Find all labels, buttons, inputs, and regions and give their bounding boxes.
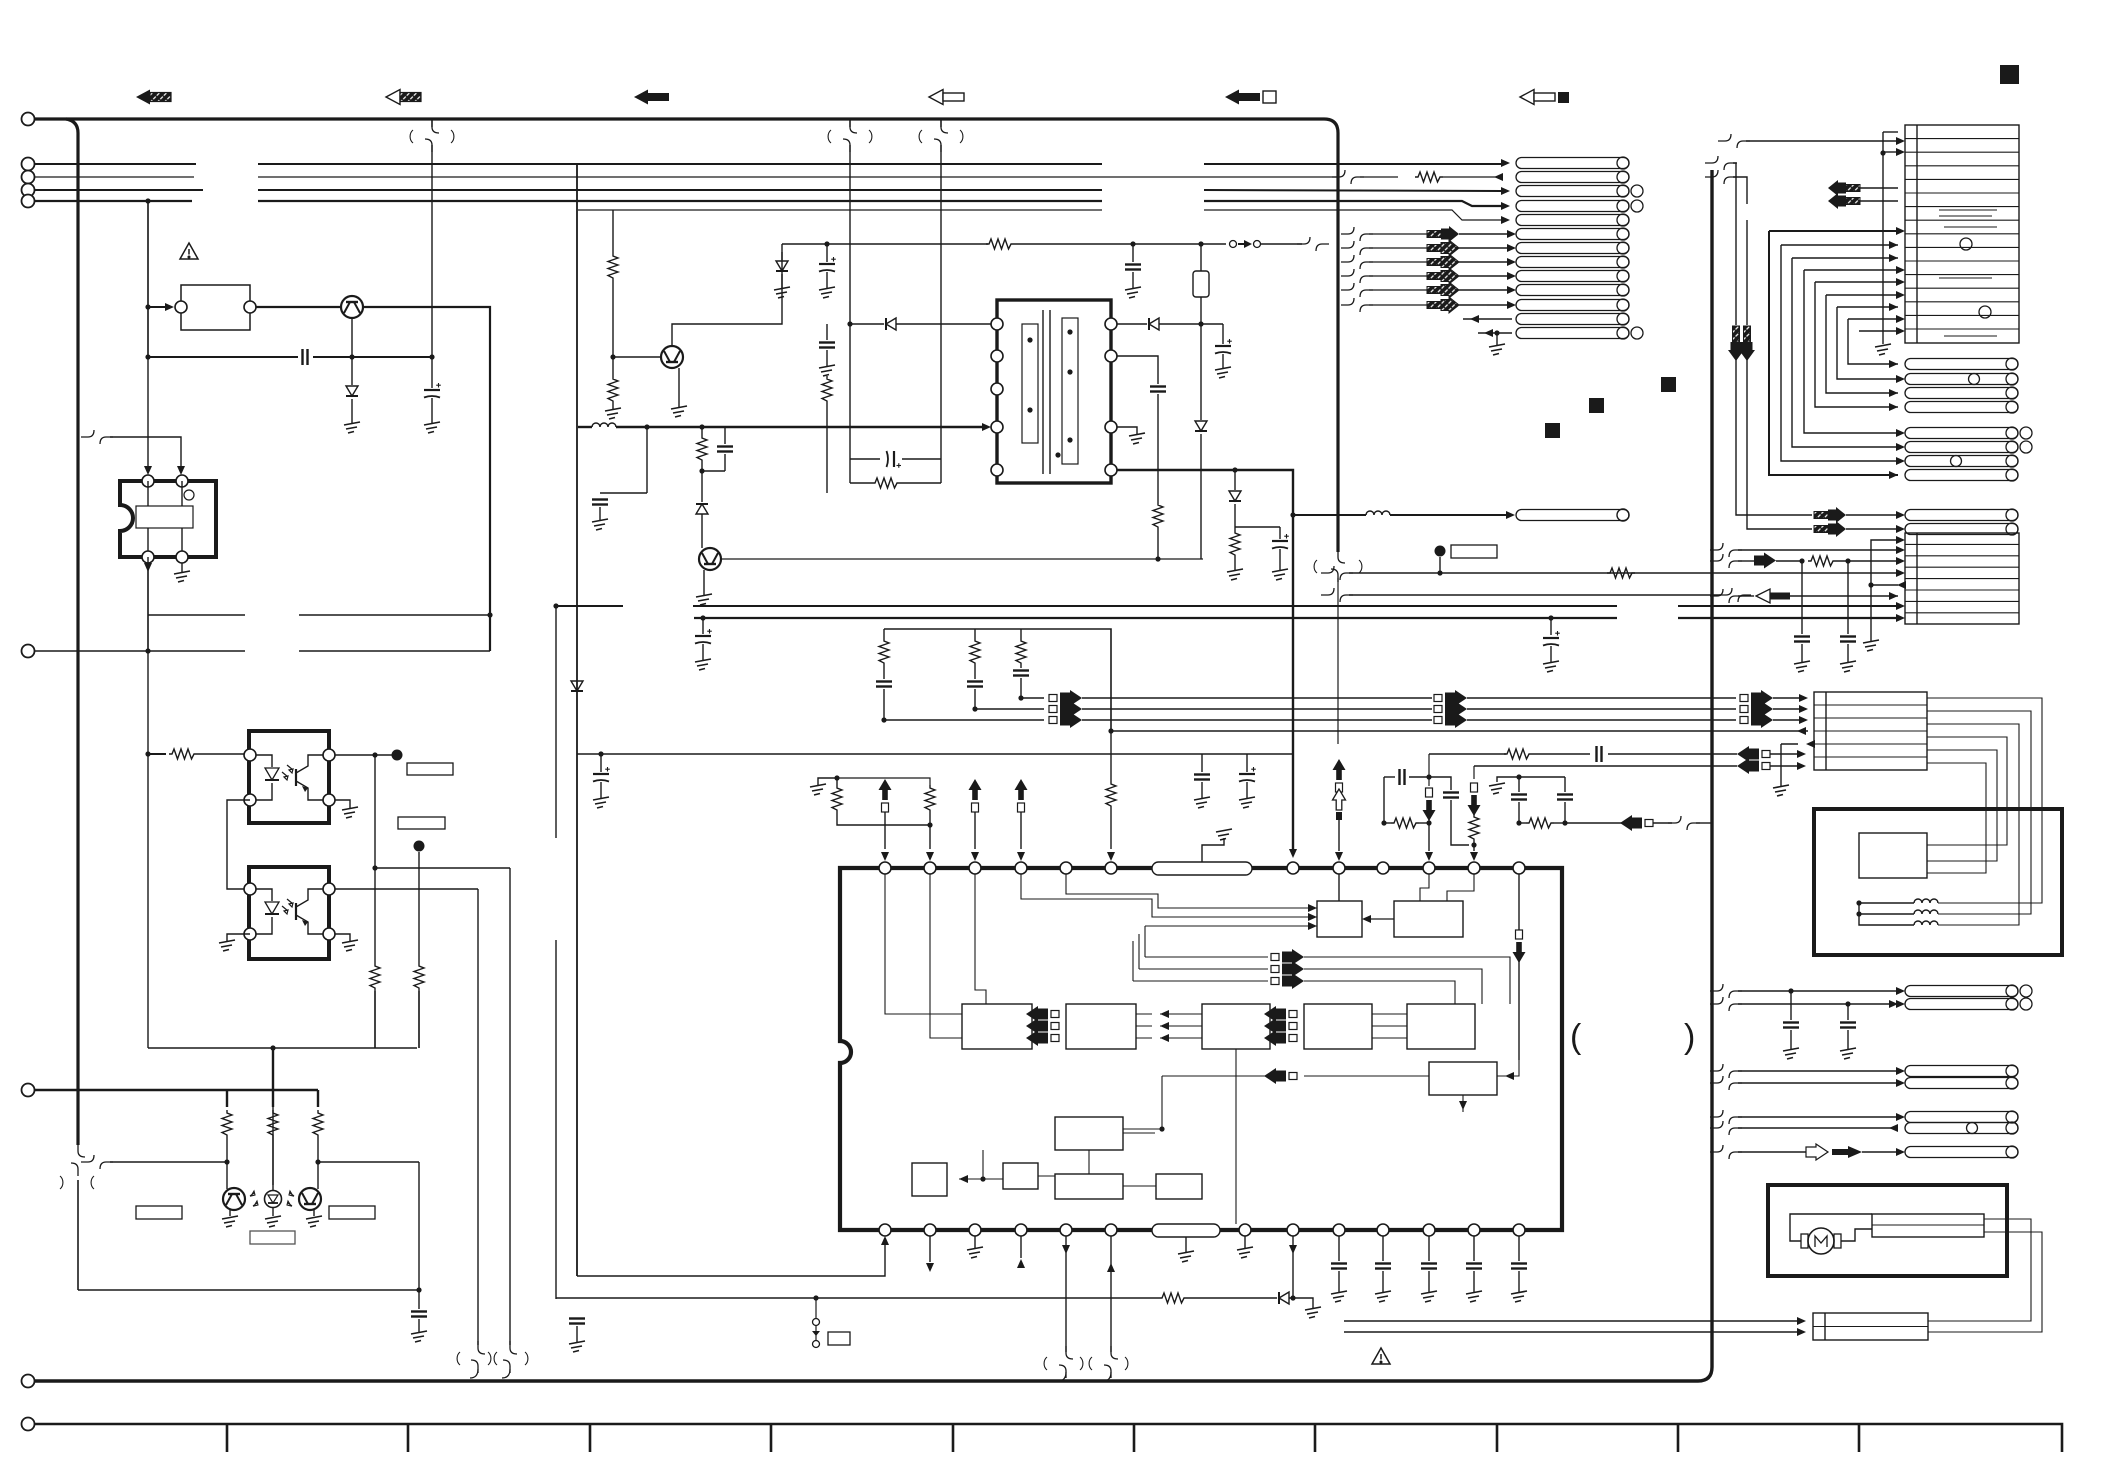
wire: vertical x=148 down to IC (147, 201, 149, 470)
connector pill (1516, 328, 1629, 339)
resistor R5 (268, 1110, 278, 1138)
ground (1237, 1247, 1253, 1258)
output rail to pill: y=515 (1290, 512, 1295, 517)
resistor R4 (222, 1110, 232, 1138)
resistor R3 (414, 963, 424, 991)
resistor x=827 lower (822, 376, 832, 404)
capacitor C1 (horizontal) (303, 349, 308, 365)
connector pill (1905, 470, 2018, 481)
connector pill (1905, 428, 2018, 439)
wire: horizontal pair mid-left (y=615) (148, 614, 490, 616)
connector pill (1905, 986, 2018, 997)
terminal T8 (bottom rail) (22, 1375, 35, 1388)
wire: bottom return (78, 1289, 419, 1291)
( ) rows at left (1718, 134, 1750, 148)
capacitor C21 (1511, 795, 1527, 800)
diode D7 (1229, 491, 1241, 501)
Q2 collector wire up and right (672, 244, 782, 346)
ground (344, 422, 360, 433)
diode to output at x=1235 (1232, 467, 1237, 472)
diode D2 (776, 261, 788, 271)
long resistor body (1872, 1214, 1984, 1237)
ground (1794, 661, 1810, 672)
connector pill (1516, 172, 1629, 183)
ground (1178, 1251, 1194, 1262)
inductor L3 (1914, 899, 1938, 903)
connector pill (1905, 1078, 2018, 1089)
terminal T7 (22, 1084, 35, 1097)
connector pill (1516, 300, 1629, 311)
resistor R9 (986, 239, 1014, 249)
line y=1297 with resistor and diode (816, 1297, 1159, 1299)
connector pill (1516, 186, 1629, 197)
test point dot (392, 750, 403, 761)
pill group A (13 pills) (1516, 157, 1643, 339)
connector pill (1905, 1112, 2018, 1123)
ground under B3 (1780, 744, 1782, 786)
ruler tick 5 (952, 1424, 955, 1452)
capacitor C24 (1840, 637, 1856, 642)
motor symbol (1808, 1228, 1834, 1254)
components under drive line (644, 424, 649, 429)
black marker square top-right (2000, 65, 2019, 84)
ground from right pin3 (1117, 427, 1137, 434)
ground (424, 422, 440, 433)
resistor pulldowns (370, 963, 380, 991)
node at Q1 emitter (349, 354, 354, 359)
resistor R23 (1469, 814, 1479, 842)
label boxes (136, 1206, 182, 1219)
svg-text:(: ( (1570, 1018, 1582, 1056)
wire: cap drive line (148, 356, 432, 358)
corner from line y606 (556, 1297, 816, 1299)
ground (1239, 797, 1255, 808)
label + dot right of transformer (1435, 546, 1446, 557)
single (y 1152) with double arrow (1710, 1145, 1742, 1159)
resistor R11 (872, 478, 900, 488)
wire: vertical x=432 from top rail through break (431, 119, 433, 127)
ground (569, 1341, 585, 1352)
( ) marks beside break (60, 1176, 94, 1189)
arrows between M3 and M4 (1264, 1006, 1297, 1022)
capacitor C17 (1239, 767, 1256, 782)
wire: PC1 output right (335, 754, 397, 756)
caps under B2 (1801, 561, 1803, 634)
jumper with two small circles (1230, 241, 1237, 248)
wires out right (1928, 1219, 2031, 1321)
ruler tick 9 (1677, 1424, 1680, 1452)
bottom pin row (879, 1224, 891, 1236)
resistor stubs (227, 1048, 318, 1107)
ground (774, 287, 790, 298)
resistor R2 (169, 749, 197, 759)
ground at IC bottom-right (181, 563, 183, 572)
top connecting wire (147, 557, 149, 615)
arrow into relay pin (148, 306, 170, 308)
ground (1863, 640, 1879, 651)
test point dot 2 (414, 841, 425, 852)
connector pill (1905, 374, 2018, 385)
diode D4 (696, 504, 708, 514)
ground (810, 784, 826, 795)
verticals feeding mid row (1133, 926, 1145, 981)
capacitor C18 (1597, 746, 1602, 762)
resistor R14 (1607, 568, 1635, 578)
( ) beside break (410, 130, 454, 143)
ground (222, 1216, 238, 1227)
ground (819, 365, 835, 376)
jumper link below (813, 1319, 820, 1326)
capacitor C4 (1125, 265, 1141, 270)
LED D2 (265, 1191, 282, 1208)
regulator IC box (thick, notched) (120, 481, 216, 557)
thick output from pin5 right (1117, 470, 1293, 852)
cap at x=1133 (1132, 244, 1134, 262)
relay pin right (244, 301, 256, 313)
flow arrow A5 (solid + open box) (1225, 90, 1276, 105)
ground (1194, 797, 1210, 808)
ground (605, 408, 621, 419)
transformer T1 (991, 300, 1117, 483)
ground (174, 571, 190, 582)
connections M4 to M5 (1372, 1014, 1407, 1038)
diode D8 (1279, 1292, 1289, 1304)
connector pill (1905, 1147, 2018, 1158)
connector pill (1516, 257, 1629, 268)
resistor R15 (879, 638, 889, 666)
bus line 5 (578, 210, 1502, 220)
cap C2 (polarized) (431, 357, 433, 388)
vertical x=1334 from top corner: break then down to IC (1331, 550, 1345, 582)
diode D3 horizontal into transformer (850, 323, 884, 325)
wire: vertical from bus4 down to relay input (147, 201, 149, 307)
break on thick vertical x=78 (71, 1144, 85, 1176)
IC inner rect (136, 506, 193, 528)
pin 1245 ground (1244, 1236, 1246, 1248)
resistor R25 (1159, 1293, 1187, 1303)
ground (265, 1216, 281, 1227)
wire from break to base row (81, 1155, 113, 1169)
ground (1875, 344, 1891, 355)
capacitor C12 (695, 629, 712, 644)
ruler tick 7 (1314, 1424, 1317, 1452)
capacitor C90 (polarized) on mid rail (1548, 615, 1553, 620)
ground (342, 807, 358, 818)
hatched arrows lines from connector to left (1849, 188, 1898, 201)
connector pill (1905, 1123, 2018, 1134)
terminal (22, 184, 35, 197)
flow arrow A2 (hatched) (386, 90, 421, 105)
capacitor C23 (1794, 637, 1810, 642)
cap x=1158 (1117, 356, 1158, 384)
ground (1489, 783, 1505, 794)
ground (967, 1247, 983, 1258)
ground + cap pair right (1497, 777, 1519, 782)
opto-coupler PC1 (244, 731, 335, 823)
capacitor C13 (876, 682, 892, 687)
wire: Q1 collector to corner x=490 down (363, 307, 490, 651)
vertical thick from above (374, 991, 376, 1048)
resistor R6 (313, 1110, 323, 1138)
resistor R10 (697, 435, 707, 463)
feed into lower-left box (1159, 1126, 1164, 1131)
diode on x=577 at y=687 (571, 681, 583, 691)
connector pill (1516, 158, 1629, 169)
ground (1783, 1048, 1799, 1059)
connector pill (1905, 524, 2018, 535)
arrows out of pills rows 12-13 (1463, 319, 1512, 333)
resistor R12 (1153, 502, 1163, 530)
wire: bottom thick rail with right thick vertical (35, 170, 1712, 1381)
ground (1489, 344, 1505, 355)
cap on x=577 bottom (569, 1319, 585, 1324)
label box 2 (398, 817, 445, 829)
ruler tick 3 (589, 1424, 592, 1452)
y573 into B2 handled above (1710, 589, 1742, 603)
bus line 3 (35, 190, 1502, 191)
connector pill (1516, 271, 1629, 282)
vertical hook + ground (1871, 540, 1898, 585)
wire: x=1111 down to resistor to IC pin (1108, 728, 1113, 733)
M boxes down-wires to bottom pins (1235, 1049, 1237, 1224)
connector pill (1905, 402, 2018, 413)
resistor R18 (1106, 781, 1116, 809)
box R mid-right (1429, 1062, 1497, 1095)
terminal T1 (22, 113, 35, 126)
feeds into B2 (1710, 543, 1742, 557)
signal line 3 y=720 (884, 719, 1044, 721)
connector pill (1516, 229, 1629, 240)
capacitor C14 (967, 682, 983, 687)
ground (1129, 433, 1145, 444)
ground (1272, 569, 1288, 580)
capacitor C25 (1783, 1023, 1799, 1028)
cap+ hanging at x=703 (700, 615, 705, 620)
wire y=593 with breaks (1321, 588, 1353, 602)
resistor R2 to opto (148, 753, 166, 755)
IC inner circle (184, 490, 194, 500)
ground (219, 940, 235, 951)
connector pill (1516, 314, 1629, 325)
signal line 2 y=709 (975, 708, 1044, 710)
IC pin bottom-left (142, 551, 154, 563)
lower transistor Q5 (699, 548, 721, 570)
ground (1543, 661, 1559, 672)
main double bus under PSU (556, 605, 1898, 607)
down arrow w/ box inside right (1513, 930, 1526, 963)
ruler base line (35, 1424, 2062, 1452)
up-arrow feeds near IC pins 885/975/1021 (818, 778, 837, 785)
capacitor C22 (1557, 795, 1573, 800)
svg-text:): ) (1684, 1018, 1695, 1056)
wire: PC1 pin2 loop to PC2 (227, 800, 250, 889)
resistor R1 (1415, 172, 1443, 182)
pair 2 (y 1071/1083) (1710, 1064, 1742, 1078)
resistor R20 (925, 785, 935, 813)
warning triangle (180, 243, 198, 259)
resistor R19 (832, 785, 842, 813)
resistor h at y483 (850, 482, 872, 484)
diode + cap to ground at left of psu (781, 252, 783, 260)
diode D1 (346, 386, 358, 396)
ground (1215, 367, 1231, 378)
zener x=1201 down (1200, 324, 1202, 420)
ruler tick 10 (1858, 1424, 1861, 1452)
connector pill (1516, 215, 1629, 226)
connector pill (1516, 285, 1629, 296)
resistor R16 (970, 638, 980, 666)
box top rail (148, 1047, 417, 1049)
wire: horizontal pair mid-left (y=651) (35, 650, 490, 652)
cap+ mid (850, 458, 941, 460)
label box (407, 763, 453, 775)
left feed vertical with ground (1882, 132, 1884, 344)
inner detail lines (1939, 210, 1997, 336)
internal top boxes (1317, 901, 1362, 937)
signal line 1 y=698 (1021, 697, 1044, 699)
snubber cap x=827 mid (826, 324, 828, 340)
capacitor C10 (1150, 387, 1166, 392)
resistor R8 (608, 376, 618, 404)
six hatched arrows into pills (1341, 227, 1427, 312)
wire: base row to right corner (318, 1161, 419, 1163)
capacitor C9 (1215, 339, 1232, 354)
cap down to 1474 junction (1429, 777, 1451, 790)
bus line 2 (35, 176, 1502, 178)
terminal T2..T5 left bus (22, 158, 35, 171)
ground (593, 797, 609, 808)
nested L wires from connector left edge down to pill groups (1769, 230, 1898, 232)
ground (592, 519, 608, 530)
inductor L2 (1366, 511, 1390, 515)
wires from bottom pins with arrows (929, 1236, 931, 1262)
wire: thick vertical lower part (77, 1180, 79, 1290)
connector pill (1516, 201, 1629, 212)
capacitor C8 (887, 451, 902, 468)
connector pill (1905, 1066, 2018, 1077)
IC pin top-left (142, 475, 154, 487)
connector pill (1905, 442, 2018, 453)
terminal T9 (ruler) (22, 1418, 35, 1431)
cap C3 (418, 1290, 420, 1309)
motor wires (1790, 1214, 1872, 1241)
hatched down arrow feeds (1735, 204, 1737, 325)
wire: vertical x=148 from relay node down (147, 307, 149, 357)
resistor R22 (1391, 818, 1419, 828)
ground (306, 1216, 322, 1227)
cap+ hanging at x=601 on y754 line (593, 767, 610, 782)
pair 3 (y 1117/1128) (1710, 1110, 1742, 1124)
capacitor C11 (1272, 534, 1289, 549)
node at x=432 (429, 354, 434, 359)
resistor trio stubs (883, 629, 885, 638)
wire: thick branch down at x=78 (66, 119, 78, 1145)
signal line 4 y=731 (1111, 730, 1808, 732)
connector pill (1905, 456, 2018, 467)
transistor Q3 (223, 1188, 245, 1210)
inductor L4 (1914, 910, 1938, 914)
wire: terminal T7 line (35, 1089, 318, 1091)
lower cluster boxes (1055, 1117, 1123, 1150)
capacitor C7 (717, 447, 733, 452)
nested vertical wires (1769, 231, 1898, 475)
right R/C cluster above IC (1428, 754, 1430, 786)
capacitor C15 (1013, 671, 1029, 676)
ground (696, 594, 712, 605)
capacitor C1 (424, 383, 441, 398)
long rail y=754 from x577 (577, 753, 1293, 755)
vertical feed x=850 from top (849, 119, 851, 127)
Q2 emitter ground (678, 368, 680, 407)
pin 1293 arrow up into pin (1292, 1236, 1294, 1297)
wire y=573 from break to right (1321, 566, 1353, 580)
node on bus4 (145, 198, 150, 203)
capacitor C2 (411, 1312, 427, 1317)
grounds PC2 (227, 934, 250, 941)
crystal / cylinder at x=1201 (1200, 244, 1202, 271)
ground (1840, 661, 1856, 672)
ground stub above pill (1202, 838, 1224, 862)
capacitor C26 (1840, 1023, 1856, 1028)
diode D6 (1195, 421, 1207, 431)
resistor divider on x=613 (612, 210, 614, 253)
wires from optos to right (to IC area) (509, 868, 511, 1345)
connector pill (1516, 243, 1629, 254)
bus line 1 (35, 163, 1502, 165)
pill group D (1905, 427, 2032, 481)
ground (1125, 287, 1141, 298)
resistor R21 (1504, 749, 1532, 759)
inductor L5 (1914, 921, 1938, 925)
flow arrow A1 (solid head, hatched tail) (136, 90, 171, 105)
connector B1 body (1905, 125, 2019, 343)
terminal (22, 195, 35, 208)
capacitor C19 (1400, 769, 1405, 785)
pill group E with hatched arrows (1814, 507, 1846, 523)
wire: PC2 out right (335, 888, 478, 890)
opto-coupler PC2 (244, 867, 335, 959)
ruler tick 6 (1133, 1424, 1136, 1452)
connector pill (1905, 999, 2018, 1010)
ruler tick 1 (226, 1424, 229, 1452)
ruler tick 4 (770, 1424, 773, 1452)
wire: break ( ) to IC top (81, 430, 113, 444)
vertical rail x=556 (555, 606, 557, 838)
resistor R13 (1230, 530, 1240, 558)
capacitor C6 (592, 500, 608, 505)
pill output (1516, 510, 1629, 521)
feeds from left into M1 (885, 874, 962, 1014)
wire: right vertical x=419 down (418, 1162, 420, 1290)
connector pill (1905, 510, 2018, 521)
resistor R26 (1808, 556, 1836, 566)
diode D3 (886, 318, 896, 330)
flow arrow A6 (open + solid box) (1520, 90, 1569, 105)
feeds from top pins into T2 box (1420, 874, 1429, 901)
zener D1 (351, 357, 353, 385)
ground (1305, 1307, 1321, 1318)
thick drive line into transformer pin4 (578, 426, 592, 428)
diode D5 (1149, 318, 1159, 330)
transistor Q4 (299, 1188, 321, 1210)
three sig lines to the right inside IC (1145, 956, 1268, 958)
ground from PC1 pin4 (335, 800, 350, 808)
capacitor C5 (819, 343, 835, 348)
IC outline (thick, notched left edge) (840, 868, 1562, 1230)
resistor R17 (1016, 638, 1026, 666)
terminal T6 (mid left) (22, 645, 35, 658)
feed lines from left (1344, 1320, 1798, 1322)
